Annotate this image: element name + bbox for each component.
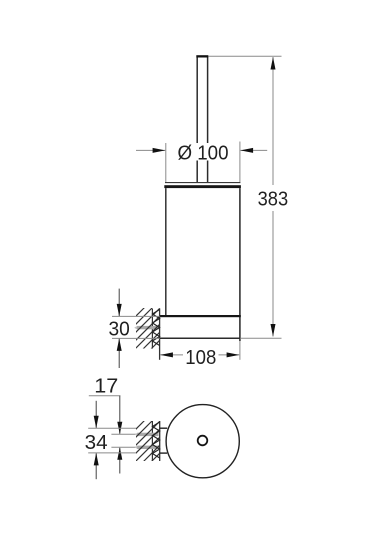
- brush rod top cap: [196, 55, 208, 57]
- label 30: [107, 318, 131, 340]
- svg-text:30: 30: [108, 318, 129, 340]
- wall anchor zigzag (lower view): [152, 422, 159, 458]
- mount plate top edge (lower view): [160, 427, 168, 429]
- arrowhead 383 top: [271, 57, 276, 70]
- label 34: [84, 432, 108, 454]
- extension line right (cup right edge extended up): [239, 142, 241, 183]
- label 383: [256, 186, 290, 211]
- dimension 17 upper arrow (points down): [119, 396, 121, 434]
- dimension line 108: [160, 354, 239, 356]
- svg-text:383: 383: [258, 189, 289, 211]
- wall inner line (lower view): [151, 421, 153, 461]
- screw 1 (lower view, gray): [135, 433, 138, 436]
- extent line 17 bottom (gray): [111, 446, 137, 448]
- center hole circle: [198, 436, 208, 446]
- svg-text:34: 34: [85, 432, 108, 454]
- wire: extension from holder bottom to 383 dimension: [240, 337, 281, 339]
- wall anchor zigzag (upper view): [152, 310, 159, 346]
- cup bottom / holder top: [160, 315, 241, 317]
- extent line 34 bottom (gray): [88, 452, 136, 454]
- brush rod left edge: [196, 57, 198, 183]
- dimension 30 bottom arrow (points up): [118, 339, 120, 368]
- cup lid thin top line: [165, 182, 240, 184]
- arrowhead D100 left (points right, tip at left extension): [153, 148, 166, 153]
- extent line 30 top (gray): [112, 315, 160, 317]
- extension line left (cup left edge extended up): [165, 143, 167, 183]
- shelf line under label 17: [89, 395, 121, 397]
- wire: extension line from rod top to 383 dimension: [208, 55, 282, 57]
- arrowhead 108 right (points right): [227, 352, 240, 357]
- extent line 17 top (gray): [111, 433, 137, 435]
- wall hatching (lower view): [130, 399, 166, 499]
- cup lid thick line: [164, 185, 241, 188]
- screw 2 (lower view, gray): [135, 446, 138, 449]
- dimension line 383 (vertical): [272, 57, 274, 337]
- holder bottom: [160, 337, 241, 339]
- dimension line D100 right part: [240, 149, 267, 151]
- cup left wall: [165, 188, 167, 316]
- dimension 17 lower arrow (points up): [119, 448, 121, 474]
- arrowhead D100 right (points left, tip at right extension): [240, 148, 253, 153]
- dimension 34 lower arrow (points up): [95, 453, 97, 479]
- svg-text:108: 108: [185, 347, 216, 369]
- extent line 30 bottom (gray): [112, 337, 160, 339]
- cup right wall (continues down as holder edge): [239, 188, 241, 341]
- svg-text:17: 17: [94, 376, 118, 398]
- cup outline circle (top view): [166, 405, 239, 478]
- dimension 30 top arrow (points down): [118, 289, 120, 316]
- wall inner line (upper view): [151, 309, 153, 349]
- extent line 34 top (gray): [88, 427, 136, 429]
- arrowhead 383 bottom: [271, 324, 276, 337]
- svg-text:Ø 100: Ø 100: [178, 142, 229, 164]
- extension line 108 right (below cup, gray): [239, 341, 241, 360]
- dimension 34 upper arrow (points down): [95, 401, 97, 428]
- brush rod right edge: [207, 57, 209, 183]
- screw (upper view, gray): [134, 326, 137, 330]
- wall face line (lower view): [159, 421, 161, 461]
- arrowhead 108 left (points left): [160, 352, 173, 357]
- dimension line D100 left part: [136, 149, 165, 151]
- label D100: [177, 142, 230, 164]
- mount plate bottom edge (lower view): [160, 452, 168, 454]
- wall face line (upper view, also 108 left extension): [159, 308, 161, 359]
- wall hatching (upper view): [130, 286, 166, 386]
